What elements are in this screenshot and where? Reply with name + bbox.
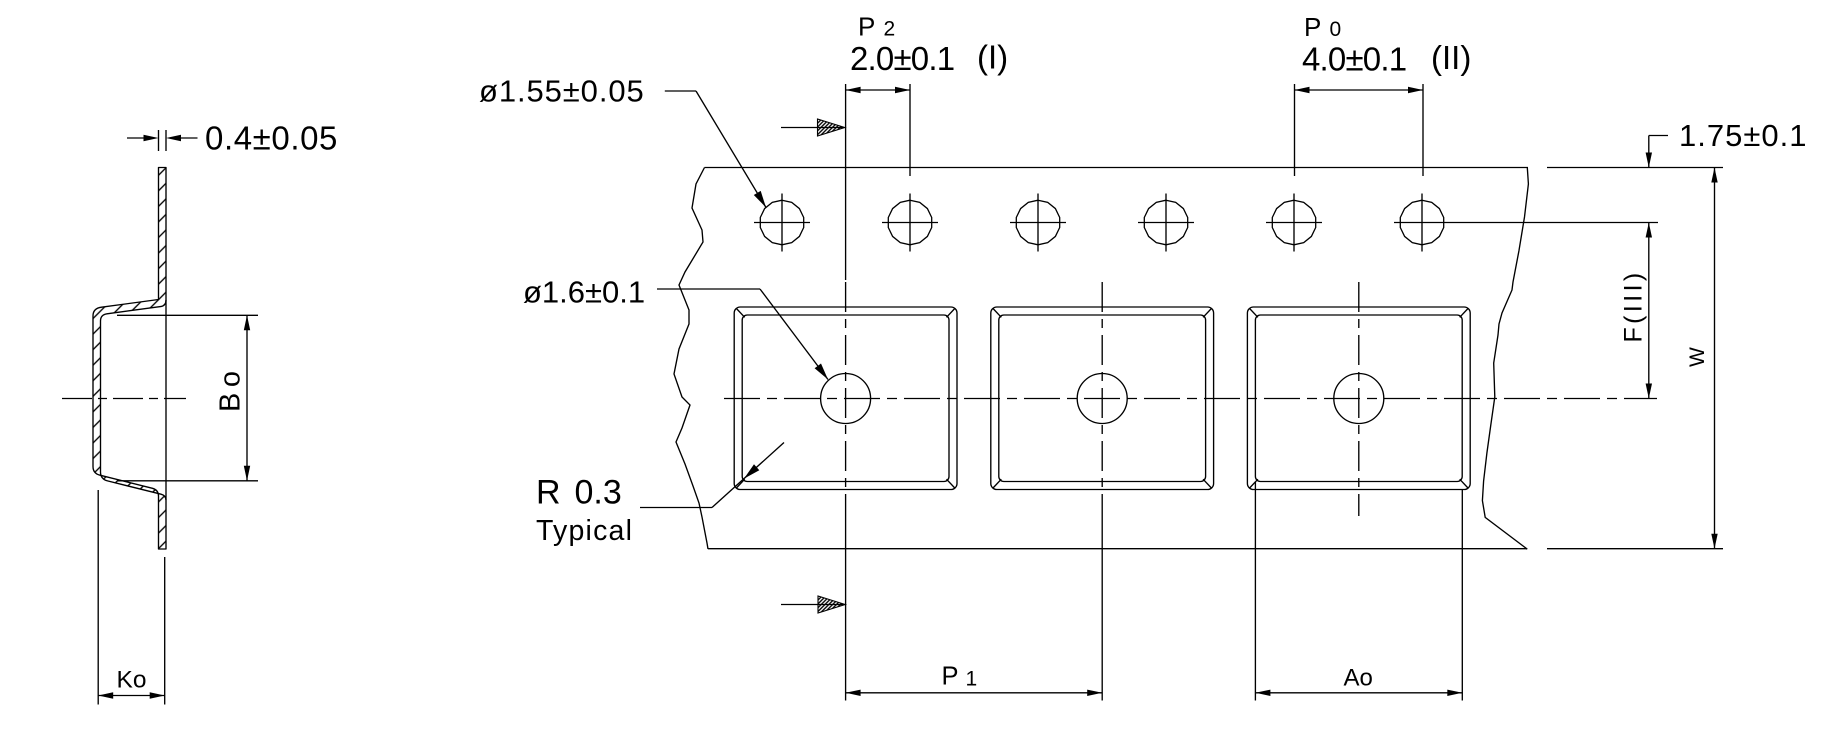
sprocket hole 2 <box>888 200 931 245</box>
tape bottom edge <box>708 548 1527 550</box>
svg-text:0: 0 <box>1330 18 1342 41</box>
pocket 3 outer <box>1247 307 1470 490</box>
svg-text:4.0±0.1: 4.0±0.1 <box>1302 41 1406 78</box>
svg-text:Ko: Ko <box>117 666 147 693</box>
pocket 1 vertical centerline <box>845 282 847 516</box>
tape surface edge line behind section <box>165 300 167 500</box>
pocket 2 outer <box>991 307 1214 490</box>
svg-text:P: P <box>1304 12 1321 42</box>
dimension 0.4±0.05 <box>127 137 146 139</box>
P2 extension/datum line through pocket1 center <box>845 84 847 280</box>
P1 right extension (pocket2) <box>1101 516 1103 701</box>
left break line <box>674 168 708 550</box>
sprocket hole 5 <box>1272 200 1315 245</box>
pocket 1 outer <box>734 307 957 490</box>
svg-text:1: 1 <box>966 668 978 691</box>
dimension Ao <box>1254 482 1256 701</box>
dimension F(III) <box>1648 223 1650 399</box>
svg-text:Typical: Typical <box>536 515 633 547</box>
svg-text:2: 2 <box>884 17 896 40</box>
svg-text:2.0±0.1: 2.0±0.1 <box>850 40 954 77</box>
svg-text:F(III): F(III) <box>1620 269 1648 342</box>
dimension P2 <box>909 84 911 176</box>
pocket 2 vertical centerline <box>1101 282 1103 516</box>
section centerline <box>62 398 186 400</box>
pocket 2 center hole <box>1077 374 1127 424</box>
pocket 3 center hole <box>1334 374 1384 424</box>
dimension Bo <box>117 314 258 316</box>
svg-text:1.75±0.1: 1.75±0.1 <box>1679 118 1807 153</box>
tape top edge <box>705 167 1529 169</box>
svg-text:Bo: Bo <box>215 366 247 412</box>
sprocket hole 1 <box>760 200 803 245</box>
right break line <box>1482 168 1528 550</box>
svg-text:P: P <box>858 11 875 41</box>
dimension P0 <box>1294 84 1296 176</box>
svg-text:R: R <box>536 474 561 512</box>
dimension P1 <box>846 692 1103 694</box>
pocket 1 corner mitres <box>736 308 744 317</box>
sprocket hole 3 <box>1016 200 1059 245</box>
svg-text:P: P <box>942 663 959 691</box>
svg-text:W: W <box>1686 347 1709 367</box>
sprocket hole 4 <box>1144 200 1187 245</box>
tape section profile (hatched) <box>93 168 166 550</box>
pocket 3 vertical centerline <box>1358 282 1360 516</box>
dimension Ko <box>97 490 99 705</box>
horizontal centerline <box>724 398 1657 400</box>
pocket 2 corner mitres <box>993 308 1001 317</box>
pocket 1 inner <box>742 315 949 482</box>
svg-text:(I): (I) <box>977 39 1008 76</box>
upper datum arrow <box>781 127 843 129</box>
dimension W <box>1714 168 1716 549</box>
lower datum arrow <box>781 604 843 606</box>
svg-text:Ao: Ao <box>1344 665 1373 692</box>
svg-text:ø1.6±0.1: ø1.6±0.1 <box>523 275 645 310</box>
sprocket hole 6 <box>1400 200 1443 245</box>
svg-text:0.3: 0.3 <box>575 474 622 512</box>
pocket 1 center hole <box>821 374 871 424</box>
pocket 3 inner <box>1255 315 1462 482</box>
svg-text:ø1.55±0.05: ø1.55±0.05 <box>479 74 645 109</box>
right reference lines <box>1547 167 1723 169</box>
svg-text:(II): (II) <box>1431 39 1471 76</box>
pocket 3 corner mitres <box>1250 308 1258 317</box>
svg-text:0.4±0.05: 0.4±0.05 <box>205 120 338 157</box>
pocket 2 inner <box>999 315 1206 482</box>
